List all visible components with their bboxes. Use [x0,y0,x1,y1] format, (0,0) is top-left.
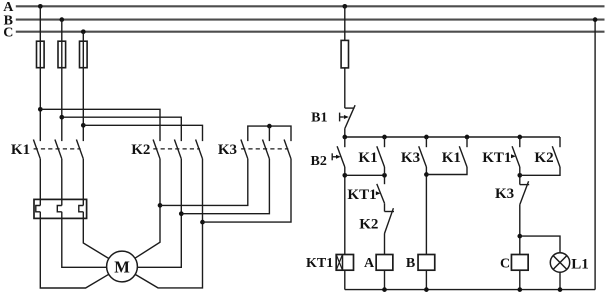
svg-text:K1: K1 [11,142,30,158]
wire control drop from A [344,6,346,40]
svg-text:A: A [364,256,375,271]
node K3/K1 link [424,172,429,177]
node B2/K1 link right [382,173,387,178]
svg-text:C: C [500,256,510,271]
wire K2 pole3 to K3 pole3 [203,159,292,222]
interlock contact K3 (NC) [520,184,529,186]
pushbutton B2 (NO start) [344,137,346,147]
svg-text:B: B [406,256,415,271]
contactor coil C [511,255,528,271]
wire control bottom bus [345,289,595,291]
wire motor V2 to K2 pole3 [135,159,202,288]
node K3 star point [267,124,272,129]
svg-text:B2: B2 [311,154,327,169]
svg-text:KT1: KT1 [347,187,376,203]
wire parallel link KT1-K2 [520,167,560,175]
node on A (tap for L1 drop) [38,4,43,9]
contactor coil A [376,255,393,271]
node K2 pole1 / K3 link [158,203,163,208]
wire L2 drop from phase B [61,20,63,142]
wire K1 to KT1 contact [384,167,386,184]
svg-text:C: C [3,26,13,41]
wire K3 branch down [425,167,427,255]
auxiliary contact K1 (NO) [466,137,468,147]
fuse FU1 [37,41,45,67]
contactor K2 delta contacts (3 poles) [153,140,160,159]
wire overload pole1 to motor U1 [40,212,108,288]
wire B coil to bottom bus [425,270,427,289]
wire parallel link B2-K1 [345,174,385,176]
fuse FU2 [58,41,66,67]
contactor coil B [418,255,435,271]
wire return to phase B [594,20,596,290]
node L1/K2 tap [38,107,43,112]
svg-text:K2: K2 [534,150,553,166]
svg-text:K2: K2 [131,142,150,158]
overload heater element pole2 [57,206,62,212]
node bus junction B2 [342,135,347,140]
overload heater element pole1 [36,206,41,212]
wire L3 drop from phase C [82,32,84,141]
wire KT1 to K2 NC [384,203,386,211]
wire lamp to bottom bus [559,272,561,289]
wire K3 NC to C coil [519,205,521,255]
wire overload pole2 to motor V1 [62,212,107,267]
wire K1 pole2 to overload [61,159,63,206]
contactor K3 star contacts (3 poles) [241,140,248,159]
node lamp on bus [558,287,563,292]
node bus junction KT1a [517,135,522,140]
motor M (3-phase, 6 leads) [107,251,138,282]
auxiliary contact K3 (NO) [425,137,427,147]
svg-text:KT1: KT1 [482,150,511,166]
wire motor U2 to K2 pole2 [137,159,181,267]
node L3/K2 tap [81,123,86,128]
node return tap on phase B [593,17,598,22]
wire L3 to K2 pole3 [83,125,202,141]
wire C coil to bottom bus [519,270,521,289]
node bus junction K1a [382,135,387,140]
node K2 pole3 / K3 link [200,220,205,225]
wire A coil to bottom bus [384,270,386,289]
wire L2 to K2 pole2 [62,117,182,141]
wire K2 pole1 to K3 pole1 [160,159,248,206]
pushbutton B1 (NC stop) [345,107,355,109]
bus line C (phase C) [16,31,605,33]
bus line A (phase A) [16,5,605,7]
overload heater element pole3 [79,206,84,212]
fuse FU3 [80,41,88,67]
wire L1 drop from phase A [39,6,41,141]
wire K2 pole2 to K3 pole2 [181,159,269,214]
wire tap to lamp L1 [520,236,560,253]
wire fuse to B1 [344,68,346,108]
svg-text:K3: K3 [401,150,420,166]
svg-text:K2: K2 [359,217,378,233]
svg-text:K3: K3 [218,142,237,158]
interlock contact K2 (NC) [385,211,395,213]
node KT1/K2 link [517,173,522,178]
contactor K1 main contacts (3 poles) [33,140,40,159]
bus line B (phase B) [16,19,605,21]
wire L1 to K2 pole1 [40,109,160,141]
node on B (tap for L2 drop) [59,17,64,22]
svg-text:B1: B1 [311,110,327,125]
node B coil on bus [424,287,429,292]
wire K2 NC to A coil [384,234,386,255]
node bus junction K3a [424,135,429,140]
wire overload pole3 to motor W1 [83,212,109,259]
node C/L1 tap [517,234,522,239]
wire KT1 branch down [519,167,521,185]
indicator lamp L1 [550,253,569,272]
svg-text:K1: K1 [358,150,377,166]
wire KT1 coil to bottom bus [344,270,346,289]
svg-text:L1: L1 [571,256,589,272]
fuse FU4 control [341,40,348,68]
wire B1 to node bus [344,129,346,137]
time relay contact KT1 (delayed, top row) [519,137,521,147]
node B2/K1 link left [342,173,347,178]
svg-text:M: M [114,257,130,276]
wire control node bus [345,136,560,138]
svg-text:K1: K1 [442,150,461,166]
node K2 pole2 / K3 link [179,211,184,216]
wire K3 star bridge bar [248,126,291,141]
auxiliary contact K2 (NO) [559,137,561,147]
time relay contact KT1 (delay NC) [377,184,385,203]
wire parallel link K3-K1 [426,167,467,175]
wire K3 middle stub [268,126,270,141]
node on C (tap for L3 drop) [81,29,86,34]
wire motor W2 to K2 pole1 [135,159,160,258]
svg-text:KT1: KT1 [306,256,333,271]
node C coil on bus [517,287,522,292]
auxiliary contact K1 (NO, seal-in) [384,137,386,147]
wire K1 pole3 to overload [82,159,84,206]
node control tap on phase A [342,4,347,9]
node L2/K2 tap [59,115,64,120]
node A coil on bus [382,287,387,292]
svg-text:K3: K3 [495,186,514,202]
node bus junction K1b [465,135,470,140]
thermal overload relay FR box [34,199,87,218]
wire K1 pole1 to overload [39,159,41,206]
time relay coil KT1 [336,255,353,271]
wire B2 to KT1 coil [344,167,346,255]
